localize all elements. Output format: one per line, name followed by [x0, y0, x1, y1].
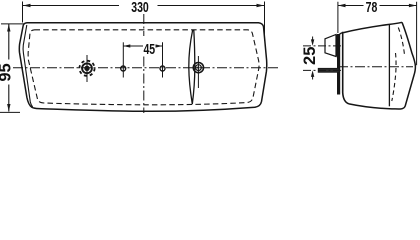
svg-text:95: 95: [0, 63, 14, 81]
svg-text:25: 25: [301, 47, 319, 65]
svg-text:330: 330: [131, 0, 149, 15]
svg-text:78: 78: [366, 0, 378, 15]
svg-text:45: 45: [143, 40, 155, 57]
